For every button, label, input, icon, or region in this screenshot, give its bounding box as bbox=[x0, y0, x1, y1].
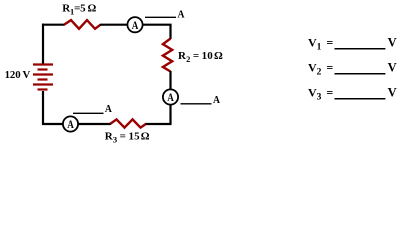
svg-text:A: A bbox=[105, 103, 112, 115]
svg-text:A: A bbox=[178, 8, 185, 20]
svg-text:A: A bbox=[213, 94, 220, 106]
blank line for V1 bbox=[335, 48, 386, 50]
wire from A1 to top-right corner, down to R2 bbox=[143, 25, 171, 39]
ammeter A3 bbox=[63, 116, 78, 131]
svg-text:V2 =: V2 = bbox=[308, 60, 333, 77]
svg-text:A: A bbox=[132, 18, 139, 32]
svg-text:V: V bbox=[388, 60, 397, 74]
svg-text:R3 = 15 Ω: R3 = 15 Ω bbox=[105, 131, 150, 145]
svg-text:A: A bbox=[167, 90, 174, 104]
wire bottom-left: from A3 to corner and up to battery bbox=[43, 91, 63, 124]
blank line for ammeter A2 reading bbox=[181, 103, 212, 105]
svg-text:120 V: 120 V bbox=[5, 69, 31, 81]
ammeter A1 bbox=[127, 17, 142, 32]
resistor R1 bbox=[64, 20, 101, 29]
wire between R2 and ammeter A2 bbox=[169, 71, 171, 90]
wire between R1 and ammeter A1 bbox=[100, 24, 128, 26]
battery 120 V bbox=[33, 65, 53, 90]
svg-text:R2 = 10 Ω: R2 = 10 Ω bbox=[178, 50, 223, 64]
wire from A2 down to bottom-right corner and left to R3 bbox=[145, 105, 171, 125]
wire left vertical from battery up to top-left corner bbox=[42, 24, 44, 64]
svg-text:V3 =: V3 = bbox=[308, 85, 333, 102]
blank line for V2 bbox=[335, 73, 386, 75]
wire between ammeter A3 and R3 bbox=[78, 123, 111, 125]
blank line for V3 bbox=[335, 98, 386, 100]
blank line for ammeter A1 reading bbox=[145, 16, 176, 18]
svg-text:V: V bbox=[388, 85, 397, 99]
svg-text:V1 =: V1 = bbox=[308, 35, 333, 52]
blank line for ammeter A3 reading bbox=[73, 112, 104, 114]
ammeter A2 bbox=[163, 89, 178, 104]
resistor R2 bbox=[163, 39, 172, 72]
svg-text:R1=5 Ω: R1=5 Ω bbox=[62, 3, 96, 17]
svg-text:A: A bbox=[67, 117, 74, 131]
resistor R3 bbox=[110, 119, 146, 127]
wire top-left horizontal segment bbox=[42, 24, 65, 26]
svg-text:V: V bbox=[388, 35, 397, 49]
